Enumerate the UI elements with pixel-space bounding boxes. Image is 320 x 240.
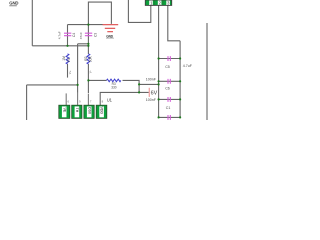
svg-text:1M: 1M	[62, 56, 66, 61]
capacitor C3 plates	[85, 33, 92, 36]
wire right rail	[179, 41, 181, 118]
wire left vertical from top edge	[31, 0, 33, 46]
svg-text:TH: TH	[75, 108, 79, 113]
svg-text:50K: 50K	[89, 56, 93, 63]
wire top horizontal caps to GND symbol	[68, 24, 103, 26]
svg-text:4.7uF: 4.7uF	[183, 64, 193, 68]
svg-text:4.7uF: 4.7uF	[57, 31, 61, 39]
svg-text:C5: C5	[165, 65, 170, 69]
svg-text:C4: C4	[72, 33, 76, 37]
wire loop rectangle to GND	[88, 2, 111, 25]
wire far right vertical	[206, 23, 208, 120]
svg-text:C1: C1	[166, 106, 171, 110]
wire GND label underline	[9, 5, 16, 7]
terminal block U1 pin4 box VDD	[96, 105, 107, 118]
junction dot bottom right	[179, 116, 181, 118]
svg-text:100nF: 100nF	[146, 78, 157, 82]
junction dot C5 right	[179, 57, 181, 59]
junction dot wire A top	[138, 83, 140, 85]
svg-text:47nF: 47nF	[79, 32, 83, 39]
capacitor C2 plates bottom	[168, 115, 170, 120]
power symbol GND red	[103, 25, 119, 32]
wire C1 row	[159, 98, 181, 100]
wire R2 bottom vertical	[87, 64, 89, 93]
junction dot wire B	[138, 91, 140, 93]
wire U1 pin4 from corner	[100, 92, 149, 105]
wire R3 left	[88, 79, 106, 81]
terminal block U1 pin1 box VE	[59, 105, 70, 118]
wire connector pin1 path	[128, 0, 150, 22]
wire bottom cap row	[159, 116, 181, 118]
svg-text:C6: C6	[165, 87, 170, 91]
junction dot wireA rail	[158, 83, 160, 85]
wire C4 column vertical	[67, 25, 69, 46]
terminal block U1 pin2 box TH	[72, 105, 82, 118]
junction dot y45.8	[87, 45, 89, 47]
svg-text:VDD: VDD	[100, 107, 104, 115]
junction dot C5 left	[158, 57, 160, 59]
wire C6 row	[159, 80, 181, 82]
junction dot mid bottom	[77, 84, 79, 86]
power symbol GND text underline	[106, 37, 114, 39]
junction dot C6 left	[158, 80, 160, 82]
capacitor C6 plates	[168, 79, 170, 84]
svg-text:100nF: 100nF	[146, 98, 157, 102]
terminal block U1 pin3 box OS0	[84, 105, 94, 118]
wire R1 bottom stub	[67, 64, 69, 78]
power flag 6V bar	[148, 88, 150, 97]
resistor R1	[66, 54, 69, 64]
svg-text:R2: R2	[84, 56, 88, 60]
wire R3 right and down	[123, 80, 140, 92]
capacitor C5 plates	[168, 56, 170, 61]
wire bottom-left horizontal	[27, 84, 78, 86]
junction dot y43.8	[87, 43, 89, 45]
capacitor C1 plates	[168, 97, 170, 102]
wire bottom-left vertical to edge	[26, 85, 28, 120]
resistor R2	[87, 54, 90, 64]
pin U1 pin2 stub	[77, 93, 79, 105]
capacitor C4 plates	[64, 33, 71, 36]
connector J1 block top right	[145, 0, 171, 5]
junction dot C6 right	[179, 80, 181, 82]
junction dot C1 left	[158, 98, 160, 100]
svg-text:U1: U1	[107, 97, 113, 102]
svg-text:330: 330	[111, 86, 117, 90]
svg-text:GND: GND	[106, 34, 113, 38]
wire A to left rail	[139, 83, 159, 85]
svg-text:OS0: OS0	[87, 107, 91, 114]
resistor R3 horizontal	[107, 79, 121, 82]
wire horizontal to cap column node	[32, 45, 88, 47]
pin U1 pin1 stub	[65, 93, 67, 105]
net label GND top-left	[9, 1, 18, 6]
svg-text:6V: 6V	[151, 91, 158, 97]
pin U1 pin3 stub	[87, 94, 89, 106]
junction dot C1 right	[179, 98, 181, 100]
wire horizontal small y=43.8	[78, 43, 89, 45]
svg-text:C3: C3	[94, 33, 98, 37]
junction dot C4 bottom	[66, 45, 68, 47]
junction dot top loop	[87, 24, 89, 26]
svg-text:V-: V-	[89, 70, 93, 73]
wire mid vertical x=77.6	[77, 44, 79, 93]
junction dot bottom left	[158, 116, 160, 118]
svg-text:VE: VE	[62, 108, 66, 113]
wire connector pin3 path	[168, 5, 180, 40]
wire connector pin2 left rail	[158, 5, 160, 117]
junction dot R2 R3	[87, 79, 89, 81]
svg-text:V+: V+	[68, 70, 72, 74]
svg-text:GND: GND	[9, 1, 18, 6]
wire C5 row	[159, 58, 181, 60]
svg-text:R1: R1	[67, 57, 71, 61]
wire C3 column vertical	[87, 25, 89, 54]
